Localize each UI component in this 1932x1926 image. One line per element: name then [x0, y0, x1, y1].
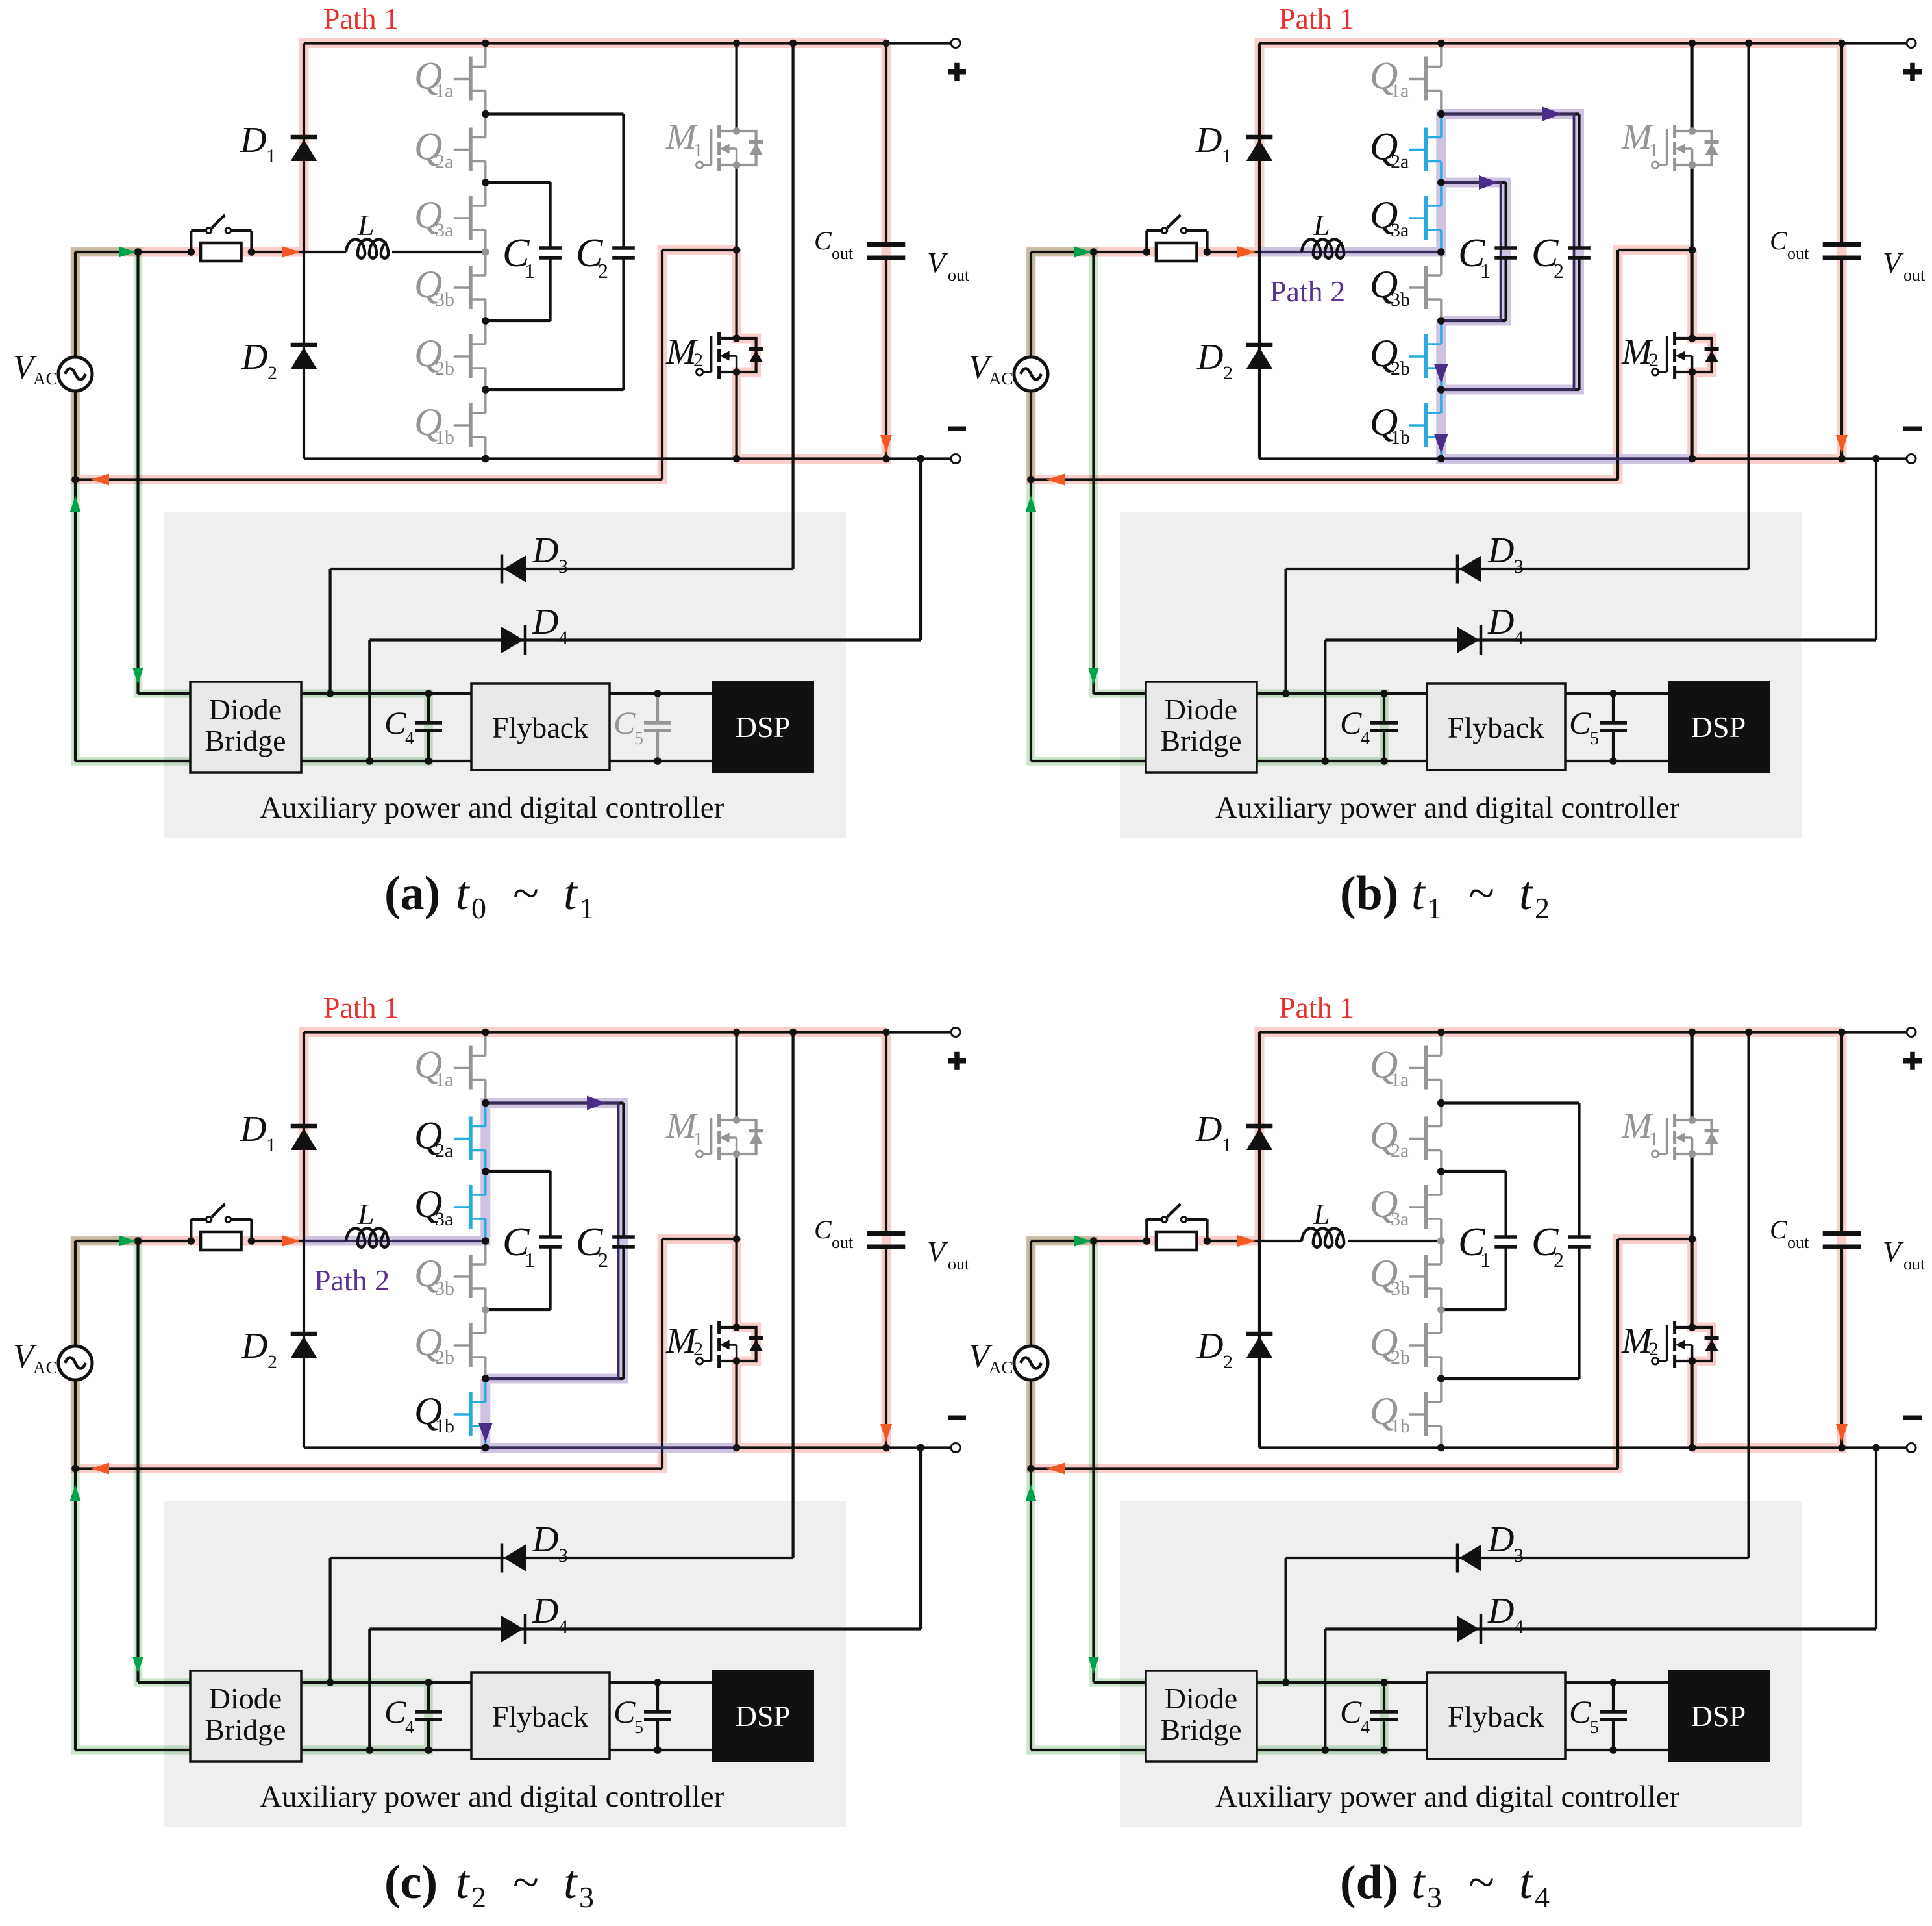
svg-text:3b: 3b	[1391, 289, 1410, 310]
svg-text:out: out	[1903, 1255, 1926, 1273]
svg-text:Path 1: Path 1	[1279, 991, 1354, 1024]
svg-text:1: 1	[1480, 259, 1491, 282]
svg-text:2: 2	[693, 349, 703, 371]
svg-text:2: 2	[1554, 1248, 1564, 1271]
svg-text:3a: 3a	[435, 1208, 453, 1230]
svg-text:0: 0	[471, 892, 486, 925]
svg-text:out: out	[1787, 244, 1809, 263]
svg-text:1a: 1a	[435, 1069, 453, 1091]
svg-text:2a: 2a	[435, 151, 453, 173]
svg-text:out: out	[948, 1255, 970, 1273]
svg-text:C: C	[1770, 1215, 1788, 1244]
svg-text:L: L	[1313, 208, 1330, 242]
svg-text:Auxiliary power and digital co: Auxiliary power and digital controller	[1215, 1780, 1680, 1814]
svg-text:D: D	[1487, 602, 1514, 642]
svg-text:Auxiliary power and digital co: Auxiliary power and digital controller	[1215, 791, 1680, 825]
svg-text:1a: 1a	[435, 81, 453, 102]
svg-text:1: 1	[266, 145, 276, 167]
svg-text:5: 5	[634, 1718, 643, 1738]
svg-text:1: 1	[1649, 140, 1659, 161]
svg-text:(c): (c)	[384, 1856, 438, 1909]
svg-text:Auxiliary power and digital co: Auxiliary power and digital controller	[260, 791, 724, 825]
svg-text:D: D	[240, 120, 266, 160]
svg-text:D: D	[240, 1109, 266, 1149]
svg-text:4: 4	[558, 1616, 568, 1638]
svg-text:1: 1	[1222, 1134, 1232, 1156]
svg-text:D: D	[1196, 1326, 1223, 1366]
svg-text:1: 1	[579, 892, 594, 925]
svg-text:Path 2: Path 2	[1270, 275, 1345, 308]
svg-text:Flyback: Flyback	[492, 1700, 588, 1733]
svg-text:5: 5	[1590, 1718, 1599, 1738]
svg-text:3b: 3b	[435, 289, 454, 310]
svg-text:Flyback: Flyback	[492, 711, 588, 744]
svg-text:D: D	[241, 337, 267, 377]
svg-text:2: 2	[1649, 349, 1659, 371]
svg-text:3b: 3b	[1391, 1278, 1410, 1299]
svg-text:1: 1	[525, 1248, 535, 1271]
svg-text:Bridge: Bridge	[1160, 1713, 1241, 1746]
svg-text:4: 4	[1514, 627, 1524, 649]
svg-text:D: D	[532, 1591, 558, 1631]
svg-text:C: C	[384, 1694, 406, 1730]
svg-text:Diode: Diode	[1165, 1682, 1237, 1715]
svg-text:1b: 1b	[1391, 1416, 1410, 1437]
svg-text:1b: 1b	[435, 427, 454, 448]
svg-text:1: 1	[693, 140, 703, 161]
svg-text:4: 4	[1535, 1881, 1550, 1914]
svg-text:t: t	[1519, 867, 1534, 920]
svg-text:(d): (d)	[1340, 1856, 1398, 1909]
svg-text:1b: 1b	[1391, 427, 1410, 448]
svg-text:C: C	[814, 226, 832, 255]
svg-text:4: 4	[1361, 1718, 1370, 1738]
svg-text:Path 2: Path 2	[314, 1264, 390, 1297]
svg-text:C: C	[613, 1694, 636, 1730]
svg-text:C: C	[1340, 705, 1362, 741]
svg-text:t: t	[456, 867, 471, 920]
svg-text:3: 3	[558, 1545, 568, 1566]
svg-text:Bridge: Bridge	[204, 724, 286, 757]
svg-text:4: 4	[405, 1718, 414, 1738]
svg-text:3a: 3a	[1391, 219, 1409, 241]
svg-text:Path 1: Path 1	[323, 2, 399, 35]
svg-text:V: V	[927, 246, 948, 279]
svg-text:2: 2	[1223, 362, 1233, 384]
svg-text:out: out	[1787, 1233, 1809, 1252]
svg-text:2b: 2b	[1391, 358, 1410, 379]
svg-text:D: D	[1196, 337, 1223, 377]
svg-text:~: ~	[513, 867, 539, 920]
svg-text:2: 2	[267, 362, 277, 384]
svg-text:Bridge: Bridge	[204, 1713, 286, 1746]
svg-text:C: C	[1569, 705, 1591, 741]
svg-text:2: 2	[1223, 1351, 1233, 1373]
svg-text:Path 1: Path 1	[1279, 2, 1354, 35]
svg-text:3: 3	[558, 556, 568, 577]
svg-text:1: 1	[693, 1129, 703, 1150]
svg-text:out: out	[948, 266, 970, 284]
svg-text:Bridge: Bridge	[1160, 724, 1241, 757]
svg-text:L: L	[357, 1197, 375, 1231]
svg-text:C: C	[613, 705, 636, 741]
svg-text:DSP: DSP	[736, 1699, 790, 1732]
svg-text:t: t	[1519, 1856, 1534, 1909]
svg-text:C: C	[1770, 226, 1788, 255]
svg-text:DSP: DSP	[1691, 1699, 1746, 1732]
svg-text:~: ~	[513, 1856, 539, 1909]
svg-text:DSP: DSP	[1691, 710, 1746, 744]
svg-text:3: 3	[1427, 1881, 1442, 1914]
svg-text:4: 4	[1361, 729, 1370, 749]
svg-text:Diode: Diode	[209, 1682, 282, 1715]
svg-text:1: 1	[1649, 1129, 1659, 1150]
svg-text:~: ~	[1468, 867, 1494, 920]
svg-text:t: t	[563, 1856, 578, 1909]
svg-text:C: C	[1569, 1694, 1591, 1730]
svg-text:2: 2	[267, 1351, 277, 1373]
svg-text:2: 2	[598, 259, 608, 282]
svg-text:2: 2	[693, 1338, 703, 1360]
svg-text:3b: 3b	[435, 1278, 454, 1299]
svg-text:V: V	[1883, 246, 1904, 279]
svg-text:D: D	[1487, 531, 1514, 571]
svg-text:1: 1	[525, 259, 535, 282]
svg-text:4: 4	[405, 729, 414, 749]
svg-text:4: 4	[558, 627, 568, 649]
svg-text:1a: 1a	[1391, 81, 1409, 102]
svg-text:AC: AC	[33, 1358, 58, 1377]
svg-text:DSP: DSP	[736, 710, 790, 744]
svg-text:D: D	[532, 531, 558, 571]
svg-text:2a: 2a	[1391, 1140, 1409, 1162]
svg-text:3: 3	[1514, 556, 1524, 577]
svg-text:1: 1	[1480, 1248, 1491, 1271]
svg-text:C: C	[1340, 1694, 1362, 1730]
svg-text:Diode: Diode	[209, 693, 282, 726]
svg-text:t: t	[563, 867, 578, 920]
svg-text:D: D	[1195, 120, 1222, 160]
svg-text:AC: AC	[33, 369, 58, 388]
svg-text:2: 2	[1554, 259, 1564, 282]
svg-text:1a: 1a	[1391, 1069, 1409, 1091]
svg-text:t: t	[456, 1856, 471, 1909]
svg-text:3a: 3a	[435, 219, 453, 241]
svg-text:out: out	[1903, 266, 1926, 284]
svg-text:AC: AC	[989, 1358, 1013, 1377]
svg-text:D: D	[1195, 1109, 1222, 1149]
svg-text:Diode: Diode	[1165, 693, 1237, 726]
svg-text:2: 2	[1649, 1338, 1659, 1360]
svg-text:Auxiliary power and digital co: Auxiliary power and digital controller	[260, 1780, 724, 1814]
svg-text:out: out	[832, 1233, 854, 1252]
svg-text:Path 1: Path 1	[323, 991, 399, 1024]
svg-text:D: D	[532, 602, 558, 642]
svg-text:t: t	[1411, 867, 1426, 920]
svg-text:L: L	[1313, 1197, 1330, 1231]
svg-text:2b: 2b	[1391, 1347, 1410, 1368]
svg-text:Flyback: Flyback	[1448, 711, 1544, 744]
svg-text:3: 3	[579, 1881, 594, 1914]
svg-text:2a: 2a	[1391, 151, 1409, 173]
svg-text:V: V	[1883, 1235, 1904, 1268]
svg-text:2b: 2b	[435, 1347, 454, 1368]
svg-text:L: L	[357, 208, 375, 242]
svg-text:1: 1	[1222, 145, 1232, 167]
svg-text:3a: 3a	[1391, 1208, 1409, 1230]
svg-text:C: C	[384, 705, 406, 741]
svg-text:AC: AC	[989, 369, 1013, 388]
svg-text:2: 2	[1535, 892, 1550, 925]
svg-text:5: 5	[634, 729, 643, 749]
svg-text:2a: 2a	[435, 1140, 453, 1162]
svg-text:C: C	[814, 1215, 832, 1244]
svg-text:2: 2	[471, 1881, 486, 1914]
svg-text:D: D	[241, 1326, 267, 1366]
svg-text:D: D	[532, 1520, 558, 1560]
svg-text:1b: 1b	[435, 1416, 454, 1437]
svg-text:~: ~	[1468, 1856, 1494, 1909]
svg-text:4: 4	[1514, 1616, 1524, 1638]
svg-text:1: 1	[1427, 892, 1442, 925]
svg-text:D: D	[1487, 1591, 1514, 1631]
svg-text:2: 2	[598, 1248, 608, 1271]
svg-text:5: 5	[1590, 729, 1599, 749]
svg-text:V: V	[927, 1235, 948, 1268]
svg-text:t: t	[1411, 1856, 1426, 1909]
svg-text:Flyback: Flyback	[1448, 1700, 1544, 1733]
svg-text:3: 3	[1514, 1545, 1524, 1566]
svg-text:(b): (b)	[1340, 867, 1398, 920]
svg-text:1: 1	[266, 1134, 276, 1156]
svg-text:(a): (a)	[384, 867, 440, 920]
svg-text:out: out	[832, 244, 854, 263]
svg-text:2b: 2b	[435, 358, 454, 379]
svg-text:D: D	[1487, 1520, 1514, 1560]
